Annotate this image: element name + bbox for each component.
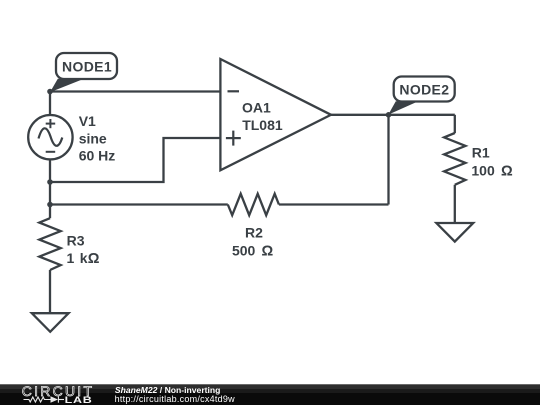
footer bar	[0, 384, 540, 405]
wire V1 bottom down to R3 junction	[49, 159, 51, 204]
svg-text:http://circuitlab.com/cx4td9w: http://circuitlab.com/cx4td9w	[115, 394, 236, 404]
junction dot node A / R2 branch	[47, 202, 53, 208]
ground below R1	[436, 223, 473, 242]
svg-text:R3: R3	[67, 232, 85, 248]
wire R2 to feedback riser	[279, 203, 389, 205]
svg-text:R2: R2	[245, 224, 263, 240]
ground below R3	[32, 313, 69, 332]
wire feedback riser to output node	[387, 115, 389, 205]
CircuitLab logo	[22, 383, 94, 405]
svg-text:1 kΩ: 1 kΩ	[67, 250, 100, 267]
op-amp OA1	[220, 59, 331, 170]
svg-text:60 Hz: 60 Hz	[79, 148, 116, 164]
svg-text:TL081: TL081	[242, 117, 283, 133]
OA1 value labels	[242, 100, 283, 133]
voltage source V1	[28, 115, 72, 159]
junction dot node A (V1- / R3 / op-amp+)	[47, 179, 53, 185]
resistor R2	[228, 194, 279, 215]
svg-text:OA1: OA1	[242, 100, 271, 116]
wire minus-input from NODE1 to op-amp	[50, 90, 220, 92]
node label NODE2	[388, 77, 454, 115]
R1 value labels	[471, 145, 513, 180]
wire plus-input from op-amp to node A	[50, 138, 220, 182]
svg-text:LAB: LAB	[65, 395, 93, 405]
svg-text:NODE1: NODE1	[62, 59, 112, 75]
resistor R1	[444, 133, 465, 222]
wire node A to R2	[50, 203, 228, 205]
node label NODE1	[50, 53, 117, 92]
V1 value labels	[79, 113, 116, 164]
R3 value labels	[67, 232, 100, 267]
svg-text:sine: sine	[79, 130, 107, 146]
junction dot at output node	[386, 112, 392, 118]
svg-text:NODE2: NODE2	[399, 82, 449, 98]
resistor R3	[39, 205, 60, 313]
svg-text:V1: V1	[79, 113, 96, 129]
svg-text:500 Ω: 500 Ω	[232, 243, 274, 260]
junction dot at NODE1	[47, 89, 53, 95]
footer title text	[115, 385, 236, 404]
R2 value labels	[232, 224, 274, 259]
wire op-amp output to R1	[331, 114, 455, 116]
wire R1 top lead	[454, 115, 456, 133]
svg-text:R1: R1	[472, 145, 490, 161]
wire NODE1 to V1 top	[49, 92, 51, 116]
svg-text:100 Ω: 100 Ω	[471, 162, 513, 179]
